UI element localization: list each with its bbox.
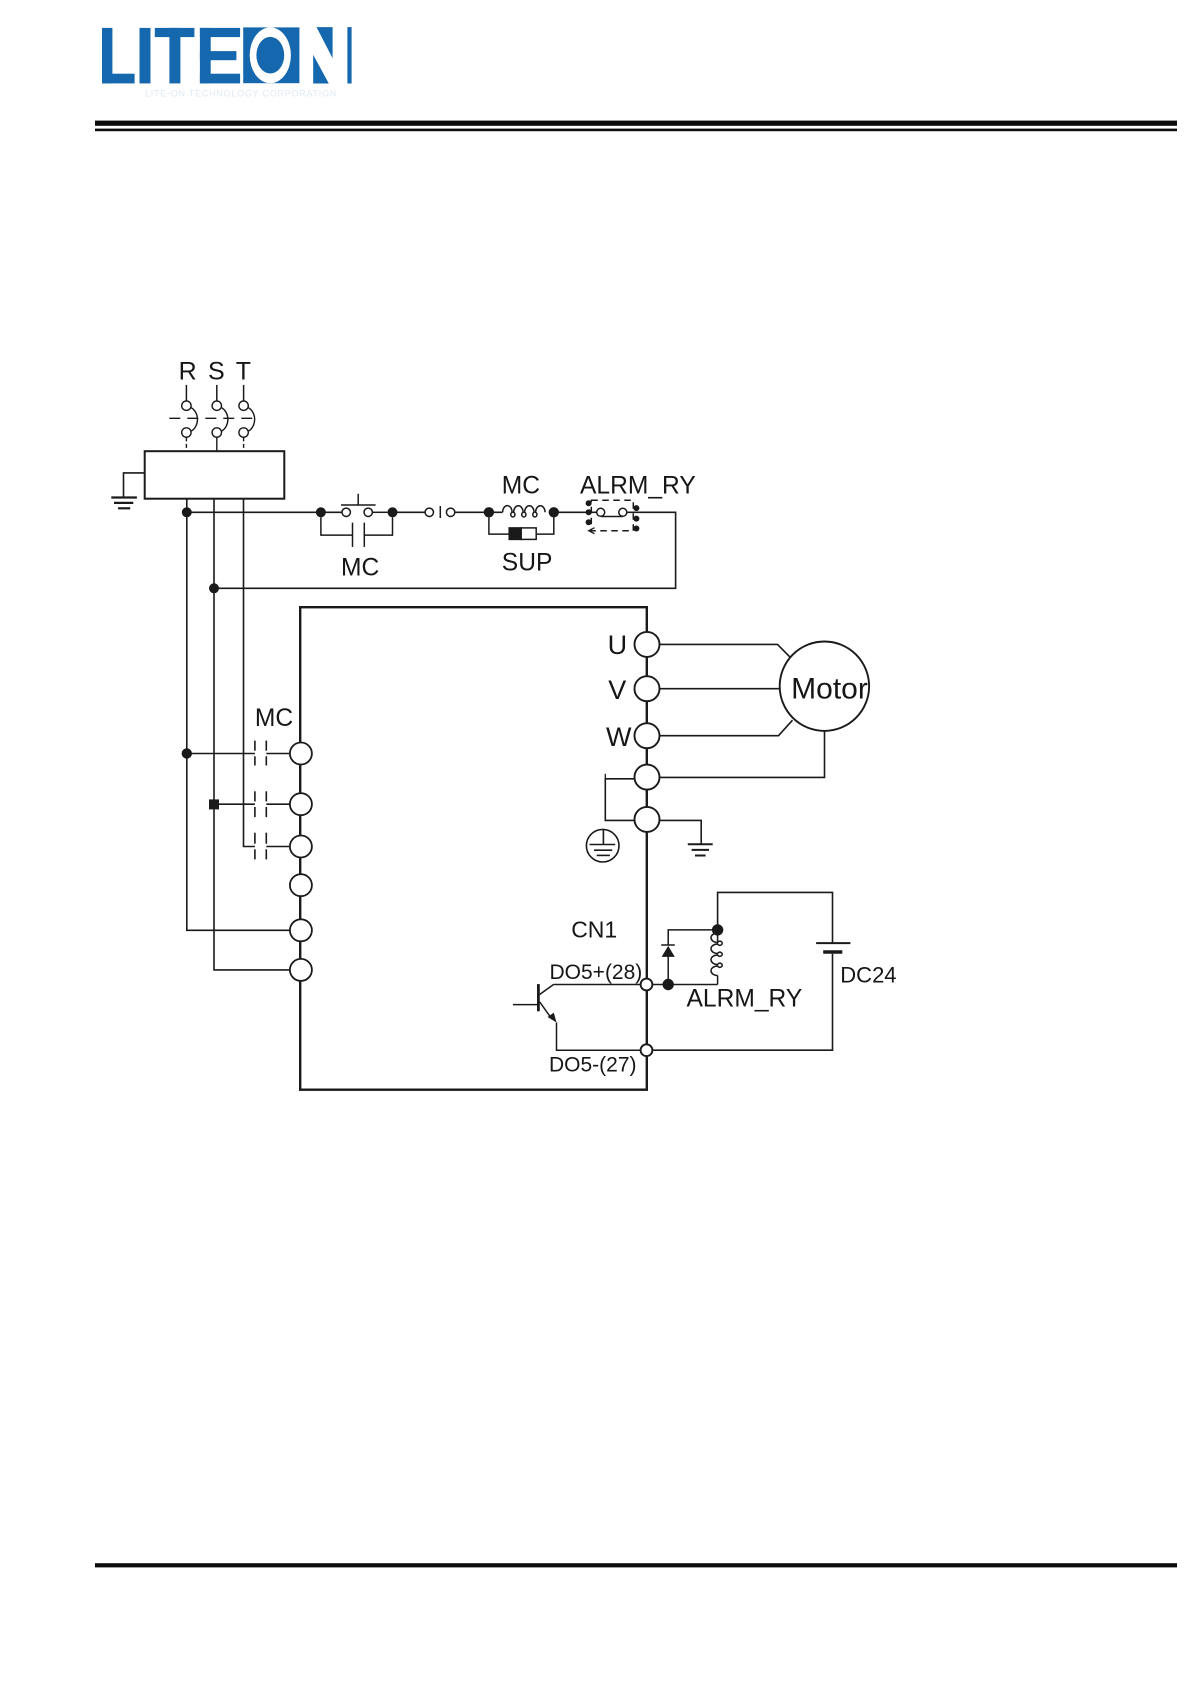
wire DO5+ to coil xyxy=(652,984,717,986)
wire battery to DO5- xyxy=(652,954,832,1050)
terminal V xyxy=(635,676,660,701)
terminal L2 xyxy=(290,793,312,815)
svg-text:U: U xyxy=(608,630,628,660)
label DC24 xyxy=(840,962,896,987)
svg-text:ALRM_RY: ALRM_RY xyxy=(580,473,696,500)
wire S drop from breaker xyxy=(214,499,290,970)
label U xyxy=(608,630,628,660)
terminal L3 xyxy=(290,836,312,858)
terminal W xyxy=(635,723,660,748)
wire R to breaker box xyxy=(185,437,187,450)
wire R input stub xyxy=(185,385,187,401)
terminal PE xyxy=(635,807,660,832)
wire T to breaker box xyxy=(243,437,245,450)
label MC (holding contact) xyxy=(341,555,379,582)
motor M xyxy=(780,642,869,731)
terminal DO5+ xyxy=(641,979,653,991)
breaker pole T xyxy=(239,401,255,437)
pushbutton OFF (NC) xyxy=(341,494,388,517)
suppressor SUP branch xyxy=(489,517,554,539)
label V xyxy=(608,675,626,705)
wire T input stub xyxy=(243,385,245,401)
contact MC main pole 3 xyxy=(255,833,290,860)
wire S to breaker box xyxy=(216,437,218,450)
node T label xyxy=(236,358,251,386)
junction dot R control tap xyxy=(182,507,192,517)
junction dot coil right xyxy=(549,507,559,517)
junction square dot S main xyxy=(209,799,219,809)
wire R drop from breaker xyxy=(187,499,290,931)
relay coil ALRM_RY xyxy=(711,930,722,985)
LITEON logo xyxy=(102,27,352,98)
pushbutton ON (NO) xyxy=(425,506,455,518)
junction dot R main xyxy=(182,748,192,758)
node S label xyxy=(208,358,225,386)
label DO5+(28) xyxy=(550,961,643,984)
relay contact ALRM_RY xyxy=(586,500,640,534)
contact MC main pole 2 xyxy=(255,791,290,817)
wire U terminal to motor xyxy=(660,644,790,657)
wire control return xyxy=(214,512,676,588)
wire S input stub xyxy=(216,385,218,401)
wire control line xyxy=(187,511,342,513)
wire T drop from breaker xyxy=(244,499,255,847)
wire S to main contact 2 xyxy=(214,803,255,805)
label W xyxy=(606,722,632,752)
svg-text:S: S xyxy=(208,358,225,386)
contact MC main pole 1 xyxy=(255,741,290,766)
breaker pole S xyxy=(212,401,228,437)
terminal L5 xyxy=(290,919,312,941)
svg-text:LITE-ON TECHNOLOGY CORPORATION: LITE-ON TECHNOLOGY CORPORATION xyxy=(145,89,337,99)
junction dot diode bottom xyxy=(663,979,674,990)
wire coil to relay contact xyxy=(554,511,597,513)
terminal P4 xyxy=(635,765,660,790)
svg-text:W: W xyxy=(606,722,632,752)
wire coil top to battery xyxy=(718,892,833,943)
footer rule xyxy=(95,1563,1177,1567)
svg-text:Motor: Motor xyxy=(791,672,868,705)
coil MC xyxy=(503,506,546,517)
svg-text:T: T xyxy=(236,358,251,386)
drive unit box xyxy=(300,607,647,1089)
svg-text:MC: MC xyxy=(502,473,540,500)
terminal DO5- xyxy=(641,1044,653,1056)
wire breaker to ground xyxy=(124,473,145,498)
svg-text:R: R xyxy=(179,358,197,386)
breaker box xyxy=(145,451,285,499)
terminal L6 xyxy=(290,959,312,981)
svg-text:CN1: CN1 xyxy=(571,917,617,943)
header rule xyxy=(95,121,1177,132)
wire W terminal to motor xyxy=(660,720,793,736)
wire ON to coil xyxy=(455,511,503,513)
svg-text:MC: MC xyxy=(341,555,379,582)
wire V terminal to motor xyxy=(660,688,780,690)
wire PE terminal to ground xyxy=(660,820,701,844)
node R label xyxy=(179,358,197,386)
svg-text:MC: MC xyxy=(255,705,293,732)
label SUP xyxy=(502,549,553,576)
label ALRM_RY (contact) xyxy=(580,473,696,500)
wire OFF to ON xyxy=(393,511,426,513)
label MC (coil) xyxy=(502,473,540,500)
diode D1 xyxy=(661,930,717,985)
terminal U xyxy=(635,632,660,657)
wire motor to P4 terminal xyxy=(660,731,825,778)
svg-text:SUP: SUP xyxy=(502,549,553,576)
label CN1 xyxy=(571,917,617,943)
wire R to main contact 1 xyxy=(187,753,255,755)
junction dot OFF right xyxy=(388,507,398,517)
label ALRM_RY (coil) xyxy=(687,986,803,1013)
transistor Q1 xyxy=(513,984,641,1050)
wire P4 to PE link xyxy=(605,779,634,821)
junction dot coil left xyxy=(484,507,494,517)
label MC (main contacts) xyxy=(255,705,293,732)
battery DC24 xyxy=(816,943,850,952)
junction dot OFF left xyxy=(316,507,326,517)
terminal L4 xyxy=(290,874,312,896)
contact MC holding (parallel) xyxy=(321,517,393,547)
svg-text:DO5-(27): DO5-(27) xyxy=(549,1054,637,1077)
breaker pole R xyxy=(182,401,198,437)
terminal L1 xyxy=(290,743,312,765)
junction dot S control return xyxy=(209,583,219,593)
ground (motor side) xyxy=(688,844,713,855)
svg-text:ALRM_RY: ALRM_RY xyxy=(687,986,803,1013)
junction dot coil top xyxy=(712,924,723,935)
ground (breaker) xyxy=(111,498,137,509)
PE earth symbol xyxy=(586,829,619,862)
svg-text:DO5+(28): DO5+(28) xyxy=(550,961,643,984)
breaker linkage dashed line xyxy=(169,417,253,419)
label DO5-(27) xyxy=(549,1054,637,1077)
svg-text:DC24: DC24 xyxy=(840,962,896,987)
svg-text:V: V xyxy=(608,675,626,705)
